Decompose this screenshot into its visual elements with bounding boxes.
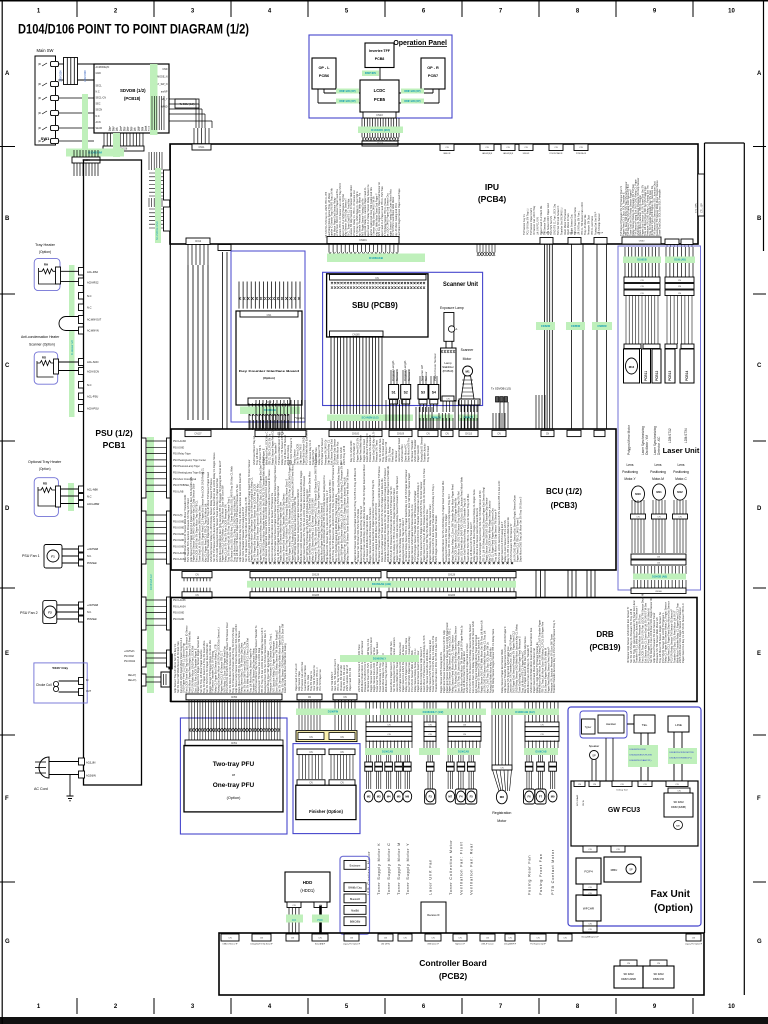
svg-text:aN10: aN10 <box>146 125 148 131</box>
svg-text:CN: CN <box>536 938 540 940</box>
wires sdvdb right to ipu <box>152 96 164 130</box>
svg-text:CN: CN <box>506 147 510 149</box>
svg-text:LINE: LINE <box>675 723 682 727</box>
svg-text:M5: M5 <box>397 795 401 799</box>
svg-text:PSU:IGND: PSU:IGND <box>173 447 184 449</box>
motor F4 Ventilation Fan: Front <box>459 755 463 762</box>
svg-text:PCU SN Paper Fee: PCU SN Paper Fee <box>319 669 322 691</box>
svg-text:CN137: CN137 <box>194 433 202 435</box>
svg-text:Motor-M: Motor-M <box>652 477 664 481</box>
svg-text:Scanner (Option): Scanner (Option) <box>29 343 55 347</box>
feed bundle from sdvdb down to ipu left connectors <box>149 152 162 170</box>
svg-text:PSU:LAASR: PSU:LAASR <box>173 440 186 443</box>
svg-text:CN: CN <box>260 938 264 940</box>
svg-text:CTL: OPU: CTL: OPU <box>696 202 698 213</box>
motor F6 Fusing Rear Fan <box>527 755 531 762</box>
svg-text:HDD: HDD <box>303 880 313 885</box>
bcu bottom connector bars wide <box>182 572 212 578</box>
svg-text:*Option: *Option <box>295 416 305 420</box>
sw contact 1 <box>51 61 59 66</box>
svg-text:Fusing Front Fan: Fusing Front Fan <box>538 853 543 895</box>
comb above bcu CN104 <box>256 400 305 429</box>
option module ModBd <box>344 906 366 915</box>
svg-text:PSU:PressureLamp Triger: PSU:PressureLamp Triger <box>173 465 200 468</box>
PCB12 box <box>652 349 661 383</box>
main sw connector block <box>64 58 78 85</box>
PSU PCB1 box <box>84 160 142 785</box>
svg-text:CN129: CN129 <box>312 575 320 577</box>
svg-text:G: G <box>5 939 10 945</box>
svg-text:CN100: CN100 <box>352 433 360 435</box>
motor M3 Toner Supply Motor K <box>376 755 380 762</box>
svg-text:ACL-PSU: ACL-PSU <box>87 395 98 399</box>
svg-text:+24VfSAB: +24VfSAB <box>87 604 99 607</box>
motor F7 Fusing Front Fan <box>538 755 542 762</box>
operation panel box <box>309 35 452 118</box>
svg-text:Finisher (Option): Finisher (Option) <box>309 809 343 814</box>
svg-text:PSU:LAASU: PSU:LAASU <box>173 552 186 555</box>
svg-text:ACN-PSU: ACN-PSU <box>87 406 99 410</box>
laser unit blue box <box>618 246 701 590</box>
svg-text:CN: CN <box>309 752 313 754</box>
TEL box <box>634 715 655 733</box>
drb interior green strip <box>340 655 419 662</box>
svg-text:Toner End Duct SOL Duct SOL Pr: Toner End Duct SOL Duct SOL Pressure <box>657 189 661 236</box>
svg-text:DRB: DRB <box>596 630 614 639</box>
MBU box <box>604 857 641 882</box>
svg-text:M2: M2 <box>367 795 371 799</box>
svg-text:Serial ATA IF: Serial ATA IF <box>315 943 326 946</box>
svg-text:SECL: SECL <box>96 84 103 87</box>
svg-text:CN: CN <box>588 929 592 931</box>
svg-text:ModBd: ModBd <box>351 909 359 912</box>
svg-text:Lens: Lens <box>627 463 634 467</box>
svg-text:SC-I/MODE GND: SC-I/MODE GND <box>156 221 159 240</box>
laser connector stacks <box>624 277 660 283</box>
svg-text:S4: S4 <box>432 391 436 395</box>
svg-text:PSU:LAAS0: PSU:LAAS0 <box>173 558 186 561</box>
controller top connectors <box>221 934 239 941</box>
svg-text:AC:WW IN: AC:WW IN <box>87 330 99 333</box>
svg-text:Registration: Registration <box>492 811 511 815</box>
psu NC stubs <box>79 293 84 300</box>
svg-text:USB2.0 Host x2 IF: USB2.0 Host x2 IF <box>223 943 239 946</box>
svg-text:PWR: PWR <box>317 919 323 922</box>
svg-text:aN_Y: aN_Y <box>162 98 168 101</box>
svg-text:One-tray PFU: One-tray PFU <box>213 782 255 789</box>
svg-text:CN201: CN201 <box>359 239 367 242</box>
svg-text:RELAY(-: RELAY(- <box>128 679 137 682</box>
svg-text:CN: CN <box>657 517 661 519</box>
svg-text:CN: CN <box>343 697 347 699</box>
svg-text:AC:WW OUT: AC:WW OUT <box>87 319 102 322</box>
svg-text:100V/200V: 100V/200V <box>84 70 87 82</box>
polygon mirror motor M13 box <box>624 349 640 383</box>
svg-text:Choke Coil: Choke Coil <box>36 683 52 687</box>
option module Enclosure <box>344 861 366 870</box>
wire handset to tel <box>627 723 634 725</box>
svg-text:PSU:IGND: PSU:IGND <box>173 547 184 549</box>
svg-text:LAN I/F(K)S: LAN I/F(K)S <box>482 152 493 155</box>
svg-text:CN: CN <box>387 734 391 736</box>
svg-text:CN: CN <box>350 938 354 940</box>
op-r PCB7 <box>421 58 445 89</box>
svg-text:Ventilation Fan: Rear: Ventilation Fan: Rear <box>469 843 474 895</box>
svg-text:PCB13: PCB13 <box>668 370 672 381</box>
finisher blue box <box>293 744 360 834</box>
ipu left edge connectors <box>164 170 171 200</box>
svg-text:A: A <box>5 71 10 77</box>
svg-text:CN: CN <box>657 557 661 559</box>
svg-text:Exposure Lamp: Exposure Lamp <box>440 306 464 310</box>
svg-text:(PCB2): (PCB2) <box>439 971 468 981</box>
svg-text:CN12: CN12 <box>195 240 202 243</box>
green strips pfu finisher <box>296 709 370 716</box>
svg-text:PCB7: PCB7 <box>428 74 438 78</box>
svg-text:OP - R: OP - R <box>427 66 439 70</box>
svg-text:Legacy PCI Option IF: Legacy PCI Option IF <box>685 943 703 946</box>
motor M9 PTB Contact Motor <box>550 755 554 762</box>
bcu top connector bars <box>185 430 211 436</box>
svg-text:CN: CN <box>657 963 661 965</box>
svg-text:Operation Panel: Operation Panel <box>393 40 447 47</box>
combs below drb <box>366 702 412 709</box>
svg-text:Relay Sensor TM Sensor Toner E: Relay Sensor TM Sensor Toner End Duct SO… <box>345 469 349 562</box>
green strips row 1 below drb <box>380 709 486 716</box>
svg-text:PCB5: PCB5 <box>374 97 386 102</box>
pfu comb <box>189 700 280 740</box>
svg-text:CN11: CN11 <box>199 146 206 149</box>
svg-text:CN: CN <box>426 433 430 435</box>
pfu top connector bar <box>186 694 282 700</box>
svg-text:CN: CN <box>675 784 679 786</box>
svg-text:ACN: ACN <box>96 121 101 124</box>
tray heater wires <box>61 270 79 272</box>
svg-text:N.C: N.C <box>87 294 92 298</box>
svg-text:PCB14: PCB14 <box>685 370 689 381</box>
svg-text:(R: (R <box>38 111 41 115</box>
svg-text:D106ONLY: D106ONLY <box>373 656 386 660</box>
svg-text:PSU:Zero CrossSignal: PSU:Zero CrossSignal <box>173 478 197 481</box>
svg-text:D106CAB: D106CAB <box>458 750 469 753</box>
motor M2 IFB Contact Motor <box>366 755 370 762</box>
svg-text:F2: F2 <box>48 611 52 615</box>
main sw box SW1 <box>35 56 56 145</box>
lcdc bottom connector <box>363 112 396 118</box>
PCB13 box <box>665 349 675 383</box>
bcu bottom pin numbers <box>252 562 379 564</box>
svg-text:L1: L1 <box>455 327 459 331</box>
svg-text:CN: CN <box>375 277 379 280</box>
svg-text:F1: F1 <box>51 555 55 559</box>
svg-text:Anti-condensation Heater: Anti-condensation Heater <box>21 335 60 339</box>
svg-text:M10: M10 <box>635 492 641 496</box>
svg-text:(Option): (Option) <box>654 903 693 914</box>
svg-text:LDB:ST34: LDB:ST34 <box>684 428 688 443</box>
svg-text:DIMM 132MB: DIMM 132MB <box>621 978 636 981</box>
wire inverter to lcdc <box>379 68 381 81</box>
enclosure column box <box>340 856 370 934</box>
svg-text:Handset: Handset <box>606 722 616 726</box>
svg-text:Motor-Y: Motor-Y <box>624 477 636 481</box>
svg-text:CN: CN <box>640 280 644 282</box>
motor F3 Laser Unit Fan <box>428 755 432 762</box>
wires op-l to lcdc <box>323 89 325 93</box>
svg-text:D106GB (AB): D106GB (AB) <box>652 575 667 578</box>
wires lcdc to op-r <box>399 92 433 94</box>
svg-text:Enclosure: Enclosure <box>350 864 361 867</box>
svg-text:CN113: CN113 <box>465 433 473 435</box>
controller board PCB2 box <box>219 933 704 995</box>
svg-text:USB I/F: USB I/F <box>523 153 530 155</box>
IPU PCB4 box <box>170 144 698 244</box>
svg-text:CN: CN <box>579 147 583 149</box>
fcu bottom connectors <box>583 846 597 852</box>
green strips row 2 <box>365 748 410 755</box>
svg-text:Tx SDVDB (1/2): Tx SDVDB (1/2) <box>491 387 511 391</box>
green strip left of ipu <box>155 168 161 243</box>
sw contact 3 <box>51 95 59 100</box>
wires ipu-left down to bcu <box>188 265 208 420</box>
svg-text:DebugSEBF IF: DebugSEBF IF <box>504 944 517 946</box>
svg-text:D106 (AB): D106 (AB) <box>674 259 686 262</box>
ipu bottom wire pair connectors <box>540 238 553 245</box>
svg-text:DISP:INV: DISP:INV <box>365 71 377 75</box>
svg-text:CN: CN <box>540 734 544 736</box>
sw contact 6 <box>51 138 59 143</box>
svg-text:PSU:Relay Triger: PSU:Relay Triger <box>173 453 191 456</box>
key counter comb top <box>239 282 300 309</box>
svg-text:PSU:IGND: PSU:IGND <box>173 613 184 615</box>
SBU PCB9 box <box>327 274 428 337</box>
svg-text:(R: (R <box>38 139 41 143</box>
svg-text:10: 10 <box>728 9 735 15</box>
lens motors M10 M11 M12 <box>632 486 645 502</box>
svg-text:F5: F5 <box>470 795 474 799</box>
svg-text:Fusing Rear Fan: Fusing Rear Fan <box>527 855 532 895</box>
svg-text:F3: F3 <box>429 795 433 799</box>
svg-text:Legacy PCI Option IF: Legacy PCI Option IF <box>343 943 361 946</box>
svg-text:CN: CN <box>546 433 550 435</box>
svg-text:D104/D6 (2/2): D104/D6 (2/2) <box>371 128 390 132</box>
controller sd-ram boxes <box>620 960 637 966</box>
svg-text:(Option): (Option) <box>39 250 51 254</box>
svg-text:D106CAB: D106CAB <box>536 750 547 753</box>
sw contact 5 <box>51 125 59 130</box>
sensor S2 <box>401 385 411 400</box>
svg-text:PSU:HeatingLamp Triger Center: PSU:HeatingLamp Triger Center <box>173 459 206 462</box>
svg-text:Motor: Motor <box>463 357 473 361</box>
svg-text:CN: CN <box>563 938 567 940</box>
motor F5 Ventilation Fan: Rear <box>469 755 473 762</box>
svg-text:CN: CN <box>291 938 295 940</box>
svg-text:100V/200V: 100V/200V <box>60 70 63 82</box>
inverter PCB8 <box>365 43 394 68</box>
svg-text:N.C: N.C <box>96 115 100 118</box>
svg-text:PSU:IGND: PSU:IGND <box>173 528 184 530</box>
svg-text:S1: S1 <box>392 391 396 395</box>
svg-text:CN: CN <box>228 938 232 940</box>
PCB11 box <box>642 349 651 383</box>
finisher top connector bars <box>297 694 322 700</box>
svg-text:CN: CN <box>318 938 322 940</box>
svg-text:(R: (R <box>38 96 41 100</box>
svg-text:GroupNEngineCP: GroupNEngineCP <box>581 936 599 939</box>
psu stubs 2 <box>79 382 84 389</box>
sdvdb PCB18 box <box>94 64 169 133</box>
svg-text:LDB:ST12: LDB:ST12 <box>668 428 672 443</box>
svg-text:CN: CN <box>463 724 467 726</box>
svg-text:DIMM (32MB): DIMM (32MB) <box>671 806 686 809</box>
ac wires <box>49 761 79 763</box>
svg-text:M12: M12 <box>677 490 683 494</box>
svg-text:DBIF:IAB (OP): DBIF:IAB (OP) <box>339 90 355 93</box>
svg-text:M6: M6 <box>405 795 409 799</box>
sw contact 2 <box>51 81 59 86</box>
svg-text:CN: CN <box>678 517 682 519</box>
key counter comb bottom <box>249 403 289 430</box>
svg-text:AC(N)IN: AC(N)IN <box>86 774 96 778</box>
svg-text:+24VfSAh: +24VfSAh <box>124 650 135 653</box>
svg-text:CN: CN <box>540 724 544 726</box>
registration motor connector <box>492 765 512 770</box>
svg-text:ACN-RS2: ACN-RS2 <box>87 281 99 285</box>
svg-text:CN128: CN128 <box>448 575 456 577</box>
svg-text:USB Option IF: USB Option IF <box>427 943 439 946</box>
svg-text:CN: CN <box>640 293 644 295</box>
svg-text:PSU:LAAS5: PSU:LAAS5 <box>173 599 186 602</box>
bcu bottom green strip <box>247 581 516 588</box>
svg-text:CN: CN <box>620 784 624 786</box>
svg-text:IEEE I/F: IEEE I/F <box>443 153 451 155</box>
two-tray PFU blue box <box>180 718 287 834</box>
svg-text:Speaker: Speaker <box>589 744 599 748</box>
svg-text:(HDD1): (HDD1) <box>300 888 315 893</box>
lamp stabilizer PCB10 <box>441 348 456 401</box>
fax unit blue box <box>568 707 701 926</box>
svg-text:Laser Unit Fan: Laser Unit Fan <box>428 859 433 895</box>
svg-text:DSUB2/20EX/CPL/DW: DSUB2/20EX/CPL/DW <box>630 755 653 757</box>
scanner unit blue box <box>323 272 483 405</box>
svg-text:DebugStat/TG Vrly Serial IF: DebugStat/TG Vrly Serial IF <box>250 943 273 946</box>
svg-text:(SD 12F/6): (SD 12F/6) <box>381 944 390 946</box>
svg-text:ACN-ABW: ACN-ABW <box>87 502 100 506</box>
BCU PCB3 box <box>171 429 616 570</box>
svg-text:PCB6: PCB6 <box>319 74 329 78</box>
key counter board box <box>236 311 302 405</box>
svg-text:Ventilation Fan: Front: Ventilation Fan: Front <box>458 841 463 895</box>
svg-text:CN1: CN1 <box>267 314 272 317</box>
svg-text:D: D <box>757 506 762 512</box>
svg-text:D106SAB 1/2: D106SAB 1/2 <box>149 574 153 590</box>
svg-text:CN: CN <box>428 724 432 726</box>
svg-text:SightLine IF: SightLine IF <box>455 943 465 946</box>
svg-text:CN: CN <box>640 286 644 288</box>
svg-text:CN: CN <box>692 938 696 940</box>
svg-text:Positioning: Positioning <box>673 470 689 474</box>
wire group C ipu to bcu <box>596 244 598 429</box>
svg-text:Paper Feed CL2 Key CL Lift SN: Paper Feed CL2 Key CL Lift SN ID Sensor … <box>681 603 685 663</box>
finisher inner box <box>296 785 356 819</box>
svg-text:ACL-SCN: ACL-SCN <box>87 360 99 364</box>
svg-text:(R: (R <box>38 126 41 130</box>
svg-text:N.C.: N.C. <box>87 555 92 558</box>
wires main sw to sdvdb <box>59 63 64 65</box>
svg-text:(Option): (Option) <box>263 376 275 380</box>
sensor S4 <box>429 385 439 400</box>
svg-text:PSU:L(5): PSU:L(5) <box>173 515 183 517</box>
svg-text:AC(L)IN: AC(L)IN <box>86 761 95 765</box>
svg-text:PCB11: PCB11 <box>644 371 648 381</box>
svg-text:(R: (R <box>38 82 41 86</box>
svg-text:PCB12: PCB12 <box>655 370 659 381</box>
svg-text:D106GB: D106GB <box>637 259 647 262</box>
svg-text:CN: CN <box>593 784 597 786</box>
svg-text:SECL-CN: SECL-CN <box>96 97 107 100</box>
svg-text:DBIF:IAB (OP): DBIF:IAB (OP) <box>339 100 355 103</box>
svg-text:Polygon Mirror Motor: Polygon Mirror Motor <box>627 424 631 455</box>
svg-text:IPU: IPU <box>485 182 499 192</box>
svg-text:Receive IF: Receive IF <box>427 913 440 917</box>
finisher yellow connector block <box>296 731 357 742</box>
svg-text:amNP: amNP <box>161 91 168 94</box>
laser lower connector bars <box>631 554 686 559</box>
svg-text:CN: CN <box>578 784 582 786</box>
svg-text:Fax Unit: Fax Unit <box>651 889 691 900</box>
svg-text:IN: IN <box>86 679 89 682</box>
svg-text:S2: S2 <box>404 391 408 395</box>
svg-text:MBU: MBU <box>611 868 618 872</box>
svg-text:CN: CN <box>588 924 592 926</box>
svg-text:PSU:IGND: PSU:IGND <box>173 534 184 536</box>
svg-text:CN: CN <box>403 938 407 940</box>
svg-text:CN: CN <box>616 849 620 851</box>
svg-text:SD RAM: SD RAM <box>673 800 683 804</box>
svg-text:Transfer Drum Motor PCU SN ITB: Transfer Drum Motor PCU SN ITB CL Duct S… <box>434 636 438 692</box>
svg-text:Debug Tool: Debug Tool <box>616 790 628 792</box>
svg-text:Toner Supply Motor K: Toner Supply Motor K <box>376 843 381 895</box>
tray heater blue box <box>34 258 60 290</box>
svg-text:M8: M8 <box>500 795 504 799</box>
svg-text:Oscillator -YM: Oscillator -YM <box>645 435 649 455</box>
to sdvdb connector squares <box>496 397 499 402</box>
svg-text:DSUB2/20CXAB/CPL): DSUB2/20CXAB/CPL) <box>630 759 652 762</box>
svg-text:SECR: SECR <box>96 127 103 130</box>
svg-text:Detector -KC: Detector -KC <box>657 436 661 455</box>
ipu bottom-left connector <box>186 238 210 245</box>
op-l PCB6 <box>312 58 336 89</box>
svg-text:CN: CN <box>554 147 558 149</box>
svg-text:Inverter:TFF: Inverter:TFF <box>369 49 391 53</box>
svg-text:CN: CN <box>309 783 313 785</box>
svg-text:OUT: OUT <box>86 690 92 693</box>
finisher inner bars <box>297 749 325 755</box>
option module Bluetooth <box>344 894 366 903</box>
svg-text:D-Heater 1/2: D-Heater 1/2 <box>70 340 74 355</box>
FCIF4 box <box>576 858 601 884</box>
combs below strips <box>366 715 412 722</box>
svg-text:RH: RH <box>44 263 48 267</box>
svg-text:Positioning: Positioning <box>650 470 666 474</box>
svg-text:10: 10 <box>728 1004 735 1010</box>
long green strip inside right of psu <box>147 437 154 693</box>
svg-text:CN: CN <box>463 734 467 736</box>
svg-text:E: E <box>757 651 761 657</box>
svg-text:Key Counter Interface Board: Key Counter Interface Board <box>239 369 299 373</box>
svg-text:SCAN2M (1/2): SCAN2M (1/2) <box>361 416 378 420</box>
svg-text:Motor-C: Motor-C <box>675 477 687 481</box>
svg-text:N.C: N.C <box>87 306 92 310</box>
